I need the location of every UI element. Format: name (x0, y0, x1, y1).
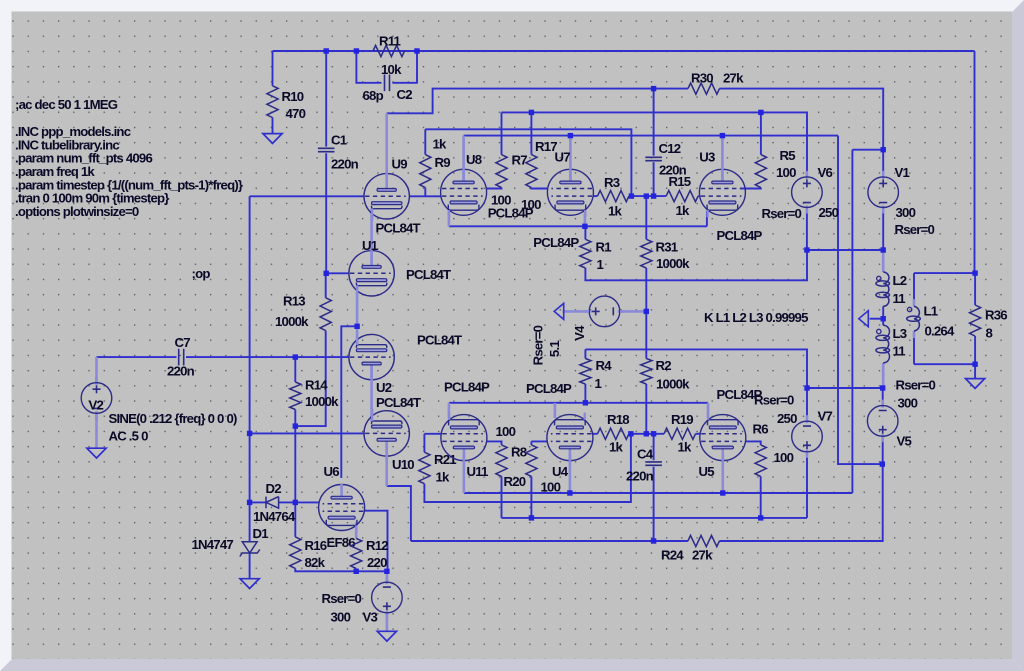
voltage source V3 (386, 576, 389, 584)
pin L1 top stub (913, 299, 916, 306)
pentode U3 (699, 169, 745, 218)
pin U3 plate lead (721, 136, 724, 182)
svg-text:R7: R7 (512, 153, 528, 168)
wire V5 bottom to R24 (719, 436, 882, 541)
svg-text:100: 100 (491, 193, 511, 208)
svg-text:C12: C12 (659, 141, 681, 156)
wire R14 node down to D2 node (294, 426, 296, 502)
svg-text:R18: R18 (607, 412, 629, 427)
pentode U4 (547, 413, 593, 462)
svg-text:220n: 220n (331, 157, 359, 172)
wire R9 top to R3 node (425, 129, 631, 196)
resistor R15 (666, 191, 698, 202)
svg-text:1k: 1k (433, 137, 448, 152)
wire screen supply bus y=112.4 to V6 top (502, 112, 808, 177)
svg-text:R21: R21 (434, 452, 456, 467)
svg-text:R4: R4 (596, 358, 613, 373)
wire U9 grid bus (250, 195, 365, 197)
resistor R24 (688, 535, 720, 546)
junction node R13/R14 bottom (293, 423, 298, 428)
wire V6 bottom lead (806, 208, 808, 251)
wire U1 cathode node to U6 plate (341, 326, 357, 478)
svg-text:PCL84P: PCL84P (717, 228, 763, 243)
wire D1 top lead (249, 502, 251, 541)
svg-text:Rser=0: Rser=0 (762, 206, 802, 221)
svg-text:R16: R16 (305, 538, 327, 553)
wire R21 bottom loop to R18 node (424, 434, 631, 502)
resistor R31 (641, 239, 652, 268)
svg-text:PCL84P: PCL84P (444, 380, 490, 395)
junction node V5 lead/x838 (880, 461, 885, 466)
svg-text:U4: U4 (552, 464, 569, 479)
capacitor C1 (318, 147, 335, 149)
wire bottom bus y=541 (411, 540, 688, 542)
diode D1 zener (242, 542, 257, 553)
junction node U10 grid (247, 431, 252, 436)
wire L1 bottom link (914, 363, 975, 365)
wire U6 grid to V3 node (365, 511, 388, 572)
svg-text:C4: C4 (637, 447, 654, 462)
pin U9 plate lead (385, 113, 388, 174)
wire C2 left branch (356, 51, 381, 83)
svg-text:R20: R20 (504, 474, 526, 489)
resistor R2 (641, 359, 652, 385)
svg-text:R36: R36 (985, 308, 1007, 323)
wire R11 right lead (405, 50, 418, 52)
pentode U8 (441, 169, 487, 218)
svg-text:R1: R1 (596, 240, 612, 255)
wire U11 screen to R8 (487, 441, 502, 445)
resistor R13 (320, 298, 331, 331)
pin L2 top lead (882, 250, 885, 272)
svg-text:1000k: 1000k (656, 256, 690, 271)
junction node transformer tap (881, 316, 886, 321)
capacitor C7 (178, 349, 180, 366)
junction node R36 bottom (972, 362, 977, 367)
node flag V4 arrow (554, 303, 564, 319)
svg-text:D2: D2 (266, 481, 282, 496)
wire V1 node branch (852, 149, 883, 151)
junction node R2 bottom (644, 431, 649, 436)
svg-text:Rser=0: Rser=0 (322, 591, 362, 606)
wire R19 to U5 grid (696, 433, 701, 435)
svg-text:R6: R6 (753, 422, 769, 437)
resistor R4 (580, 359, 591, 385)
wire L2-L3 center tap (882, 306, 884, 325)
wire R13 top lead (325, 273, 327, 298)
svg-text:1N4747: 1N4747 (192, 537, 234, 552)
svg-text:V3: V3 (363, 610, 378, 625)
svg-text:R8: R8 (511, 445, 527, 460)
resistor R9 (420, 155, 431, 188)
svg-text:U2: U2 (376, 380, 392, 395)
junction node C12 top (651, 86, 656, 91)
svg-text:1k: 1k (436, 470, 451, 485)
junction node R31 top (644, 193, 649, 198)
wire C2 right branch (392, 51, 417, 83)
svg-text:Rser=0: Rser=0 (531, 325, 546, 365)
inductor L3 (883, 325, 889, 363)
wire C4 top lead (653, 434, 655, 460)
resistor R17 (526, 155, 537, 188)
svg-text:L3: L3 (893, 326, 907, 341)
wire R21 top to U11 grid (424, 433, 441, 435)
junction node C4 top (651, 431, 656, 436)
wire R30 left lead (654, 88, 688, 90)
wire U1 grid lead (326, 272, 349, 274)
svg-text:R3: R3 (604, 175, 620, 190)
resistor R8 (496, 445, 507, 477)
wire V5 top lead (882, 388, 884, 406)
resistor R18 (598, 428, 629, 439)
junction node V7 top (804, 385, 809, 390)
wire R17 bottom to U7 screen (531, 187, 547, 190)
wire L1 top link (914, 272, 975, 274)
wire C12 top lead (653, 89, 655, 156)
svg-text:R31: R31 (656, 240, 678, 255)
svg-text:U5: U5 (699, 464, 715, 479)
wire R16 top lead (294, 502, 296, 537)
junction node V1 branch (881, 147, 886, 152)
pentode U11 (441, 413, 487, 462)
voltage source V6 (806, 171, 809, 179)
wire L1 bottom lead (913, 338, 915, 364)
triode U2 (349, 333, 394, 381)
junction node R11 left (354, 48, 359, 53)
pin U4 cathode lead (554, 403, 557, 418)
pin L1 bottom stub (913, 331, 916, 338)
resistor R36 (970, 305, 981, 336)
svg-text:100: 100 (776, 165, 796, 180)
wire U4 screen to R20 (531, 440, 547, 442)
wire R20 top lead (530, 441, 532, 445)
wire cathode bottom bus y=571.3 (295, 568, 387, 571)
svg-text:SINE(0 .212 {freq} 0 0 0): SINE(0 .212 {freq} 0 0 0) (109, 411, 237, 426)
wire U10 grid lead (250, 432, 364, 434)
ground V2 (87, 448, 106, 458)
pin U11 cathode lead (448, 403, 451, 418)
wire R1 bottom bus y=280.3 up to V6 node (585, 250, 807, 280)
resistor R12 (351, 538, 362, 568)
capacitor C2 (384, 75, 386, 92)
resistor R1 (580, 239, 591, 268)
svg-text:1k: 1k (676, 203, 691, 218)
ground R10 (263, 134, 282, 144)
pin U8 cathode lead (448, 212, 451, 226)
junction node V3 top (384, 569, 389, 574)
wire long left vertical x=249.6 (249, 196, 251, 502)
wire R13 bottom to R14 node (295, 331, 325, 427)
svg-text:1: 1 (597, 257, 604, 272)
pin U5 cathode lead (707, 403, 710, 418)
pin U4 plate lead (569, 455, 572, 493)
wire U9 grid to R9/U8 grid (409, 195, 440, 197)
svg-text:V7: V7 (818, 409, 833, 424)
wire D2 left lead (250, 501, 266, 503)
junction node U1/U2 cathodes (354, 324, 359, 329)
svg-text:L2: L2 (893, 273, 907, 288)
svg-text:1N4764: 1N4764 (253, 509, 296, 524)
svg-text:Rser=0: Rser=0 (896, 378, 936, 393)
wire C1 bottom to U1-grid node (325, 153, 327, 273)
pentode U6 EF86 (319, 484, 365, 533)
svg-text:;ac dec 50 1 1MEG: ;ac dec 50 1 1MEG (15, 97, 118, 112)
svg-text:1k: 1k (608, 204, 623, 219)
wire long vertical x=852 to plate bus (851, 150, 853, 493)
wire R8 bottom lead (501, 476, 503, 518)
svg-text:27k: 27k (723, 71, 744, 86)
svg-text:C2: C2 (397, 87, 413, 102)
svg-text:U6: U6 (324, 464, 340, 479)
inductor L1 (914, 306, 919, 331)
wire right vertical x=974.5 (974, 51, 976, 273)
pin U11 plate lead (463, 455, 466, 493)
svg-text:PCL84T: PCL84T (376, 395, 421, 410)
junction node R36 top (972, 270, 977, 275)
voltage source V4 (584, 310, 591, 313)
svg-text:68p: 68p (363, 88, 384, 103)
wire R17 top lead (530, 112, 532, 154)
inductor L2 (883, 272, 889, 306)
svg-text:1k: 1k (678, 440, 693, 455)
resistor R3 (598, 191, 629, 202)
resistor R14 (290, 382, 301, 410)
junction node D2/R16/U6 screen (293, 500, 298, 505)
svg-text:250: 250 (819, 205, 839, 220)
svg-text:1000k: 1000k (305, 394, 339, 409)
svg-text:Rser=0: Rser=0 (895, 222, 935, 237)
svg-text:100: 100 (774, 450, 794, 465)
wire R36 top lead (974, 273, 976, 305)
wire plate bus y=135.6 (464, 135, 838, 137)
svg-text:220: 220 (367, 555, 387, 570)
svg-text:R14: R14 (305, 378, 328, 393)
pin U5 plate lead (721, 455, 724, 493)
node flag transformer tap arrow (859, 311, 869, 327)
wire R15 to U3 grid (698, 195, 700, 197)
triode U10 (364, 409, 409, 457)
svg-text:U11: U11 (467, 464, 489, 479)
wire U3 cathode lead (706, 211, 708, 226)
svg-text:K L1 L2 L3 0.99995: K L1 L2 L3 0.99995 (704, 310, 808, 325)
svg-text:300: 300 (331, 610, 351, 625)
svg-text:100: 100 (521, 197, 541, 212)
svg-text:R24: R24 (661, 548, 684, 563)
svg-text:U10: U10 (392, 457, 414, 472)
triode U1 (349, 250, 394, 298)
wire U9 plate to C12 top (387, 89, 654, 114)
svg-text:R15: R15 (669, 174, 691, 189)
svg-text:D1: D1 (253, 526, 269, 541)
svg-text:R19: R19 (671, 412, 693, 427)
resistor R11 (373, 45, 405, 56)
wire R14 bottom lead (294, 410, 296, 427)
junction node R11 right (414, 48, 419, 53)
wire U10 plate corner (387, 486, 411, 541)
pin U2 cathode up (356, 326, 359, 345)
svg-text:1k: 1k (609, 440, 624, 455)
ground D1 (240, 579, 259, 589)
pin U7 plate lead (569, 136, 572, 182)
svg-text:C7: C7 (175, 335, 191, 350)
pin V2 bottom lead (95, 414, 98, 449)
wire R4 bottom lead (584, 384, 586, 403)
wire tap arrow lead (870, 318, 884, 320)
wire R18 to C4 node (629, 433, 664, 435)
wire R31 top lead (645, 196, 647, 239)
svg-text:11: 11 (893, 291, 906, 306)
svg-text:PCL84P: PCL84P (526, 381, 572, 396)
wire R30 to V1 top (720, 89, 884, 177)
pentode U5 (700, 413, 746, 462)
wire R9 top lead (424, 129, 426, 154)
pin V4 left lead (563, 310, 589, 313)
junction node R20 bottom (529, 515, 534, 520)
junction node R3 right (629, 193, 634, 198)
wire U4 grid to R18 (593, 433, 598, 435)
junction node D2 left (247, 500, 252, 505)
pin U6 cathode to R12 (355, 523, 358, 539)
resistor R16 (290, 537, 301, 569)
resistor R19 (664, 428, 696, 439)
svg-text:;op: ;op (192, 266, 211, 281)
svg-text:1000k: 1000k (275, 314, 309, 329)
op-amp U9 (triode PCL84T U9) (364, 173, 409, 221)
junction node U4 plate (567, 490, 572, 495)
resistor R7 (496, 155, 507, 188)
svg-text:8: 8 (986, 326, 993, 341)
capacitor C12 (645, 156, 662, 158)
pin U10 plate lead (385, 442, 388, 486)
svg-text:R12: R12 (366, 538, 388, 553)
svg-text:R13: R13 (283, 294, 305, 309)
wire R1 top lead (584, 226, 586, 239)
svg-text:PCL84T: PCL84T (376, 221, 421, 236)
wire R11 left lead (356, 50, 373, 52)
junction node U3 plate (720, 133, 725, 138)
svg-text:V1: V1 (895, 165, 910, 180)
wire R14 top lead (294, 357, 296, 382)
wire y=402.8 bus U11/U5 cathodes (449, 402, 708, 404)
resistor R10 (267, 86, 278, 118)
svg-text:R30: R30 (691, 71, 713, 86)
voltage source V5 (881, 400, 884, 408)
svg-text:PCL84P: PCL84P (533, 235, 579, 250)
svg-text:11: 11 (893, 344, 906, 359)
resistor R30 (688, 83, 720, 94)
junction node V5 top (880, 385, 885, 390)
wire U3 screen to R5 bottom (740, 187, 761, 190)
svg-text:EF86: EF86 (327, 535, 356, 550)
wire C12 bottom lead (653, 162, 655, 196)
svg-text:82k: 82k (305, 555, 326, 570)
junction node R18 right (628, 431, 633, 436)
pin V3 top lead (386, 571, 389, 582)
junction node R12 bottom (354, 569, 359, 574)
wire R9 bottom lead (424, 188, 426, 197)
pin V2 top lead (95, 357, 98, 382)
wire V6-V1 bottom link y=250 (807, 249, 883, 251)
junction node C12 bottom (651, 193, 656, 198)
wire long vertical x=838 to V5 (838, 136, 882, 465)
wire plate bus y=493 (464, 492, 853, 494)
resistor R6 (755, 445, 766, 477)
wire V1 bottom lead (882, 208, 884, 251)
voltage source V1 (882, 171, 885, 179)
svg-text:V6: V6 (818, 165, 833, 180)
ground R36 (966, 379, 985, 389)
junction node V4/R31/R2 (644, 309, 649, 314)
junction node R17 top (529, 110, 534, 115)
svg-text:U7: U7 (555, 150, 571, 165)
pin U8 plate lead (462, 136, 465, 182)
wire R36 to ground (974, 364, 976, 378)
wire R2 bottom to R18 node (645, 384, 647, 434)
svg-text:U9: U9 (392, 157, 408, 172)
resistor R5 (755, 155, 766, 188)
wire U6 screen stub (295, 501, 319, 503)
diode D2 (266, 497, 279, 509)
pin U1 cathode down (356, 286, 359, 327)
wire R36 bottom lead (974, 336, 976, 364)
wire V4 node to R2 top (645, 311, 647, 358)
wire U7 grid to R3 (593, 195, 598, 197)
junction node U7 plate (568, 133, 573, 138)
wire V7 top lead (806, 388, 808, 418)
svg-text:PCL84T: PCL84T (417, 333, 462, 348)
wire R5 top lead (760, 112, 762, 154)
svg-text:470: 470 (286, 106, 306, 121)
resistor R21 (419, 452, 430, 484)
svg-text:V4: V4 (572, 325, 587, 341)
wire R7 bottom to U8 screen (487, 187, 502, 190)
svg-text:27k: 27k (692, 548, 713, 563)
wire cathode bus y=226.3 (449, 225, 707, 227)
svg-text:220n: 220n (167, 364, 195, 379)
wire top supply bus y=51 (273, 50, 975, 52)
voltage source V2 (95, 377, 98, 385)
wire R21 top lead (423, 434, 425, 452)
svg-text:100: 100 (541, 480, 561, 495)
wire R12 bottom lead (355, 568, 357, 571)
wire R31 bottom to V4 node (645, 268, 647, 311)
wire L1 top lead (913, 273, 915, 299)
svg-text:1000k: 1000k (656, 377, 690, 392)
junction node C7/R14 top (293, 354, 298, 359)
svg-text:1: 1 (595, 376, 602, 391)
junction node U7 cathode/R1 (582, 224, 587, 229)
svg-text:R5: R5 (780, 148, 796, 163)
svg-text:C1: C1 (331, 133, 347, 148)
junction node U1 grid/R13 (324, 271, 329, 276)
junction node V6 bottom (804, 247, 809, 252)
svg-text:R11: R11 (379, 34, 401, 49)
junction node R5 top (758, 110, 763, 115)
junction node C4 bottom (651, 538, 656, 543)
capacitor C4 (645, 461, 662, 463)
wire V2 to C7 (97, 356, 177, 358)
svg-text:250: 250 (777, 411, 797, 426)
svg-text:300: 300 (896, 205, 916, 220)
svg-text:AC .5 0: AC .5 0 (109, 429, 149, 444)
wire R3 to R15 node (629, 195, 666, 197)
svg-text:Rser=0: Rser=0 (754, 393, 794, 408)
pin U2 plate to U10 cathode (370, 365, 373, 422)
wire R4 top lead (584, 349, 586, 358)
svg-text:L1: L1 (924, 304, 938, 319)
svg-text:PCL84T: PCL84T (406, 267, 451, 282)
wire C4 bottom lead (653, 467, 655, 541)
